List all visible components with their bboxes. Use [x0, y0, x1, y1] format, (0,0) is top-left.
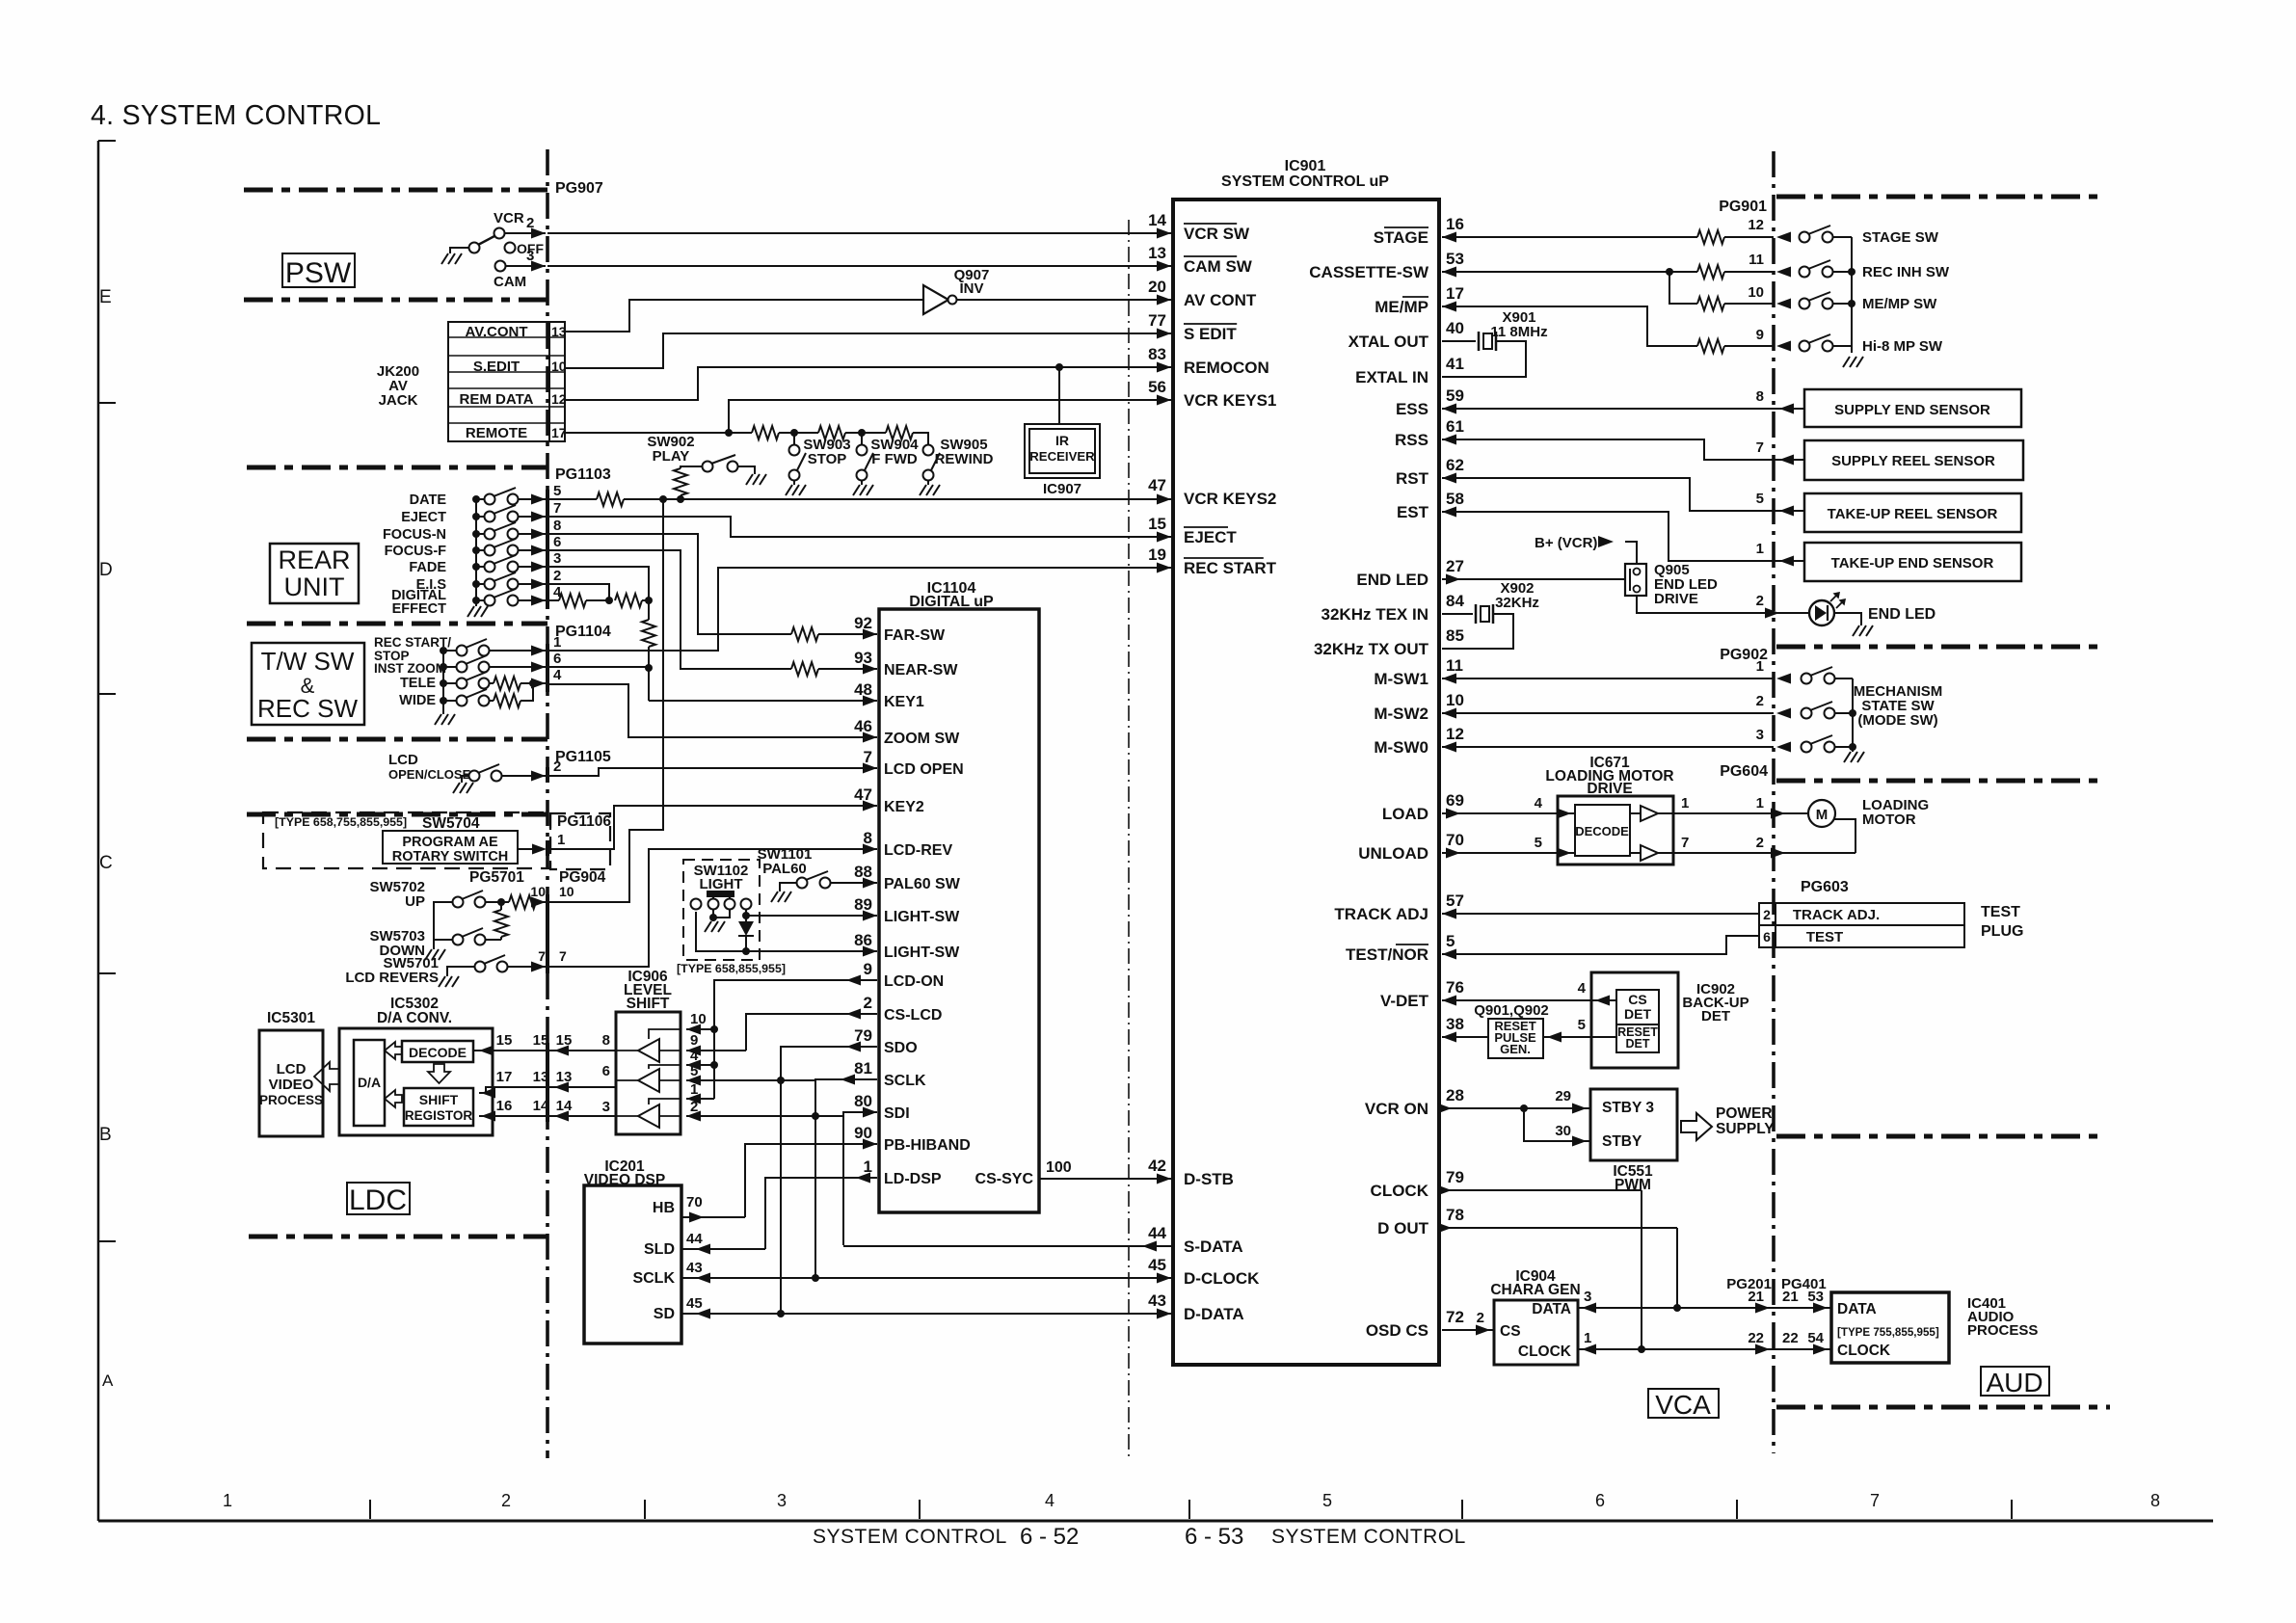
- wire UNLOAD pin70 to IC671 pin5: [1442, 852, 1575, 854]
- wire RSS to SUPPLY REEL SENSOR: [1442, 439, 1804, 460]
- svg-text:14: 14: [556, 1098, 573, 1114]
- power switch common wire to ground: [450, 248, 468, 253]
- svg-text:12: 12: [551, 391, 567, 407]
- RESET PULSE GEN box: [1488, 1019, 1543, 1058]
- section divider LDC bottom left: [249, 1235, 547, 1239]
- wire PG904-7 route to IC1104 LCD-REV: [547, 849, 877, 967]
- svg-text:LIGHT-SW: LIGHT-SW: [884, 909, 960, 925]
- wire CAM contact to PG907 pin 3: [506, 265, 546, 267]
- block label VCA box: [1648, 1389, 1719, 1418]
- svg-text:70: 70: [1446, 831, 1464, 849]
- svg-text:79: 79: [854, 1026, 872, 1045]
- svg-text:42: 42: [1148, 1157, 1166, 1175]
- wire IC671 out1 to loading motor: [1658, 812, 1808, 814]
- RESET DET sub box: [1616, 1024, 1659, 1052]
- svg-text:ESS: ESS: [1396, 400, 1428, 418]
- wire SDI from S-DATA riser: [843, 1112, 877, 1245]
- wire D OUT pin78 riser to DATA line: [1442, 1227, 1677, 1229]
- svg-text:8: 8: [864, 829, 872, 847]
- wire PG907-2 to IC901 pin14 VCR SW: [547, 232, 1171, 234]
- svg-text:IC901: IC901: [1285, 158, 1326, 174]
- svg-text:TEST: TEST: [1806, 929, 1843, 945]
- svg-text:10: 10: [1446, 691, 1464, 709]
- svg-text:TAKE-UP END SENSOR: TAKE-UP END SENSOR: [1831, 555, 1994, 572]
- right section divider PG902 bottom: [1776, 645, 2104, 650]
- svg-text:D OUT: D OUT: [1377, 1219, 1429, 1237]
- wire FOCUS-N/PG1103-8 to IC1104 FAR-SW: [547, 534, 791, 634]
- TAKE-UP REEL SENSOR box: [1804, 493, 2021, 532]
- buffer triangle in IC906 y=1090: [638, 1039, 659, 1062]
- svg-text:17: 17: [551, 425, 567, 440]
- svg-text:VCR KEYS2: VCR KEYS2: [1184, 490, 1276, 508]
- wire RST to TAKE-UP REEL SENSOR: [1442, 478, 1804, 511]
- svg-text:DATE: DATE: [410, 492, 447, 508]
- svg-text:VIDEO DSP: VIDEO DSP: [584, 1172, 665, 1188]
- ground rear unit common: [467, 606, 488, 617]
- svg-text:11: 11: [1446, 656, 1463, 675]
- svg-text:61: 61: [1446, 417, 1464, 436]
- svg-text:TELE: TELE: [400, 676, 436, 691]
- svg-text:CLOCK: CLOCK: [1837, 1343, 1891, 1359]
- wire IC671 out7 to loading motor return: [1658, 852, 1855, 854]
- svg-text:3: 3: [553, 550, 561, 567]
- power switch OFF contact: [505, 243, 516, 253]
- wire DATE/PG1103-5 to IC901 pin47 VCR KEYS2 with resistor: [547, 498, 597, 500]
- power switch CAM contact: [495, 261, 506, 272]
- svg-text:S-DATA: S-DATA: [1184, 1237, 1243, 1256]
- op-amp IC201 VIDEO DSP box: [584, 1185, 681, 1344]
- svg-text:ME/MP SW: ME/MP SW: [1862, 296, 1937, 312]
- svg-text:32KHz TX OUT: 32KHz TX OUT: [1314, 640, 1429, 658]
- svg-text:F FWD: F FWD: [871, 451, 918, 467]
- svg-text:SUPPLY END SENSOR: SUPPLY END SENSOR: [1834, 402, 1990, 418]
- svg-text:E: E: [99, 287, 112, 307]
- bottom axis tick marks: [369, 1500, 371, 1519]
- svg-text:DET: DET: [1624, 1006, 1651, 1022]
- wire riser KEY1 to IC1104 pin48: [649, 700, 877, 702]
- junction IR receiver on REMOCON line: [1055, 363, 1063, 371]
- resistor SW902 pull-down: [674, 468, 687, 495]
- wire VCR ON pin28 to STBY3/STBY: [1442, 1107, 1590, 1109]
- svg-text:SDI: SDI: [884, 1105, 910, 1122]
- wire STAGE SW to IC901 pin16 STAGE: [1442, 236, 1697, 238]
- svg-text:3: 3: [526, 248, 534, 264]
- svg-text:NEAR-SW: NEAR-SW: [884, 662, 958, 678]
- wire PG907-3 to IC901 pin13 CAM SW: [547, 265, 1171, 267]
- svg-text:D: D: [99, 560, 113, 580]
- svg-text:79: 79: [1446, 1168, 1464, 1186]
- svg-text:EJECT: EJECT: [1184, 528, 1237, 546]
- svg-text:15: 15: [1148, 515, 1166, 533]
- D/A sub box: [354, 1040, 385, 1126]
- wire FADE/PG1103-3 down center riser: [547, 567, 649, 600]
- svg-text:TAKE-UP REEL SENSOR: TAKE-UP REEL SENSOR: [1828, 506, 1998, 522]
- svg-text:62: 62: [1446, 456, 1464, 474]
- svg-text:DRIVE: DRIVE: [1654, 591, 1698, 607]
- switch common rail to ground: [1851, 237, 1853, 353]
- svg-text:17: 17: [1446, 284, 1464, 303]
- REAR UNIT block label box: [270, 544, 359, 603]
- wire PG1105-2 to IC1104 pin7 LCD OPEN: [547, 768, 877, 776]
- wire AV.CONT to inverter Q907 and IC901 pin20 AV CONT: [565, 300, 923, 332]
- svg-text:REWIND: REWIND: [935, 451, 994, 467]
- svg-text:CASSETTE-SW: CASSETTE-SW: [1309, 263, 1429, 281]
- svg-text:KEY2: KEY2: [884, 799, 924, 815]
- svg-text:86: 86: [854, 931, 872, 949]
- svg-text:92: 92: [854, 614, 872, 632]
- svg-text:13: 13: [556, 1069, 573, 1085]
- switch T/W row y=675: [440, 647, 447, 654]
- svg-text:47: 47: [854, 785, 872, 804]
- wire V-DET pin76 to CS DET: [1442, 999, 1616, 1001]
- svg-text:B: B: [99, 1125, 112, 1145]
- svg-text:78: 78: [1446, 1206, 1464, 1224]
- junction SW904: [858, 429, 866, 437]
- section divider REAR UNIT top: [247, 466, 547, 470]
- svg-text:6: 6: [1763, 929, 1771, 945]
- wire LCD-ON to IC906 enables: [714, 980, 877, 1099]
- wire M-SW1 to mode switch 1: [1442, 678, 1774, 679]
- svg-text:VIDEO: VIDEO: [269, 1077, 314, 1093]
- svg-text:48: 48: [854, 680, 872, 699]
- wire CS-LCD to IC906 pin9: [746, 1014, 877, 1051]
- svg-text:D/A: D/A: [358, 1075, 381, 1090]
- svg-text:9: 9: [1756, 327, 1764, 343]
- svg-text:CS: CS: [1500, 1323, 1521, 1340]
- svg-text:DIGITAL uP: DIGITAL uP: [909, 594, 994, 610]
- switch SW903 STOP: [793, 433, 795, 445]
- wire light bottom rail to IC1104 pin86 LIGHT-SW: [696, 912, 877, 951]
- svg-text:FAR-SW: FAR-SW: [884, 627, 946, 644]
- svg-text:PG907: PG907: [555, 180, 603, 197]
- svg-text:SCLK: SCLK: [884, 1073, 926, 1089]
- svg-text:CLOCK: CLOCK: [1371, 1182, 1429, 1200]
- wire INST ZOOM switch to bus: [490, 666, 546, 668]
- svg-text:17: 17: [496, 1069, 513, 1085]
- ground T/W common: [435, 714, 455, 725]
- wire INST ZOOM to KEY1 riser: [547, 666, 649, 668]
- svg-text:PG1105: PG1105: [555, 749, 611, 765]
- wire ME/MP SW joins CASSETTE net: [1669, 272, 1697, 304]
- svg-text:HB: HB: [653, 1200, 675, 1216]
- wire EST to TAKE-UP END SENSOR: [1442, 512, 1804, 561]
- svg-text:PAL60: PAL60: [762, 861, 807, 877]
- svg-text:VCR: VCR: [494, 210, 524, 226]
- wire EJECT/PG1103-7 to IC901 pin15 EJECT: [547, 517, 1171, 537]
- buffer triangle in IC906 y=1121: [638, 1069, 659, 1092]
- DECODE sub box in IC671: [1575, 805, 1630, 856]
- svg-text:2: 2: [553, 758, 561, 775]
- dashed option box TYPE 658,755,855,955 around SW5704: [263, 812, 550, 868]
- svg-text:VCA: VCA: [1655, 1390, 1711, 1420]
- svg-text:EJECT: EJECT: [401, 510, 446, 525]
- right section divider PG604 area: [1776, 779, 2104, 784]
- svg-text:1: 1: [557, 832, 565, 848]
- wire SLD to LD-DSP: [681, 1248, 765, 1250]
- svg-text:M-SW2: M-SW2: [1374, 705, 1428, 723]
- svg-text:72: 72: [1446, 1308, 1464, 1326]
- svg-text:3: 3: [602, 1099, 610, 1115]
- block arrow D/A to SHIFT REGISTOR: [385, 1090, 402, 1107]
- svg-text:7: 7: [864, 748, 872, 766]
- svg-text:STAGE: STAGE: [1374, 228, 1428, 247]
- svg-text:DATA: DATA: [1532, 1301, 1571, 1317]
- wire SW902 right contact to ground: [738, 466, 755, 474]
- svg-text:PG901: PG901: [1719, 199, 1767, 215]
- svg-text:4: 4: [1045, 1491, 1055, 1510]
- lamp terminals circles: [691, 899, 702, 910]
- wire Q905 to END LED diode: [1637, 596, 1774, 613]
- wire RESET DET to RESET PULSE GEN to pin38: [1543, 1036, 1616, 1038]
- svg-text:WIDE: WIDE: [399, 693, 436, 708]
- svg-text:C: C: [99, 853, 113, 873]
- junction REMOTE line to key resistor ladder: [725, 429, 733, 437]
- svg-text:TRACK ADJ: TRACK ADJ: [1334, 905, 1428, 923]
- wire E.I.S/PG1103-2 to divider: [547, 584, 609, 600]
- svg-text:A: A: [102, 1371, 114, 1390]
- svg-text:9: 9: [864, 960, 872, 978]
- switch REC INH SW: [1800, 267, 1810, 278]
- svg-text:STBY: STBY: [1602, 1133, 1642, 1150]
- svg-text:XTAL OUT: XTAL OUT: [1348, 333, 1429, 351]
- dashed option box around PG1106: [550, 813, 610, 869]
- svg-text:2: 2: [1756, 835, 1764, 851]
- svg-text:RSS: RSS: [1395, 431, 1428, 449]
- wire VCR contact to PG907 pin 2: [505, 232, 546, 234]
- svg-text:PSW: PSW: [285, 257, 352, 289]
- svg-text:[TYPE 755,855,955]: [TYPE 755,855,955]: [1837, 1326, 1939, 1339]
- svg-text:84: 84: [1446, 592, 1464, 610]
- bottom axis line: [98, 1520, 2213, 1523]
- block arrow DECODE down to SHIFT REGISTOR: [428, 1064, 450, 1083]
- connector JK200 AV JACK box: [448, 322, 565, 441]
- svg-text:4. SYSTEM CONTROL: 4. SYSTEM CONTROL: [91, 100, 381, 131]
- svg-text:19: 19: [1148, 545, 1166, 564]
- wire TEST/NOR pin5: [1442, 936, 1759, 954]
- svg-text:REC SW: REC SW: [257, 694, 358, 723]
- power switch blade: [478, 236, 494, 245]
- resistor FAR-SW series: [791, 627, 818, 641]
- svg-text:AV CONT: AV CONT: [1184, 291, 1257, 309]
- svg-text:GEN.: GEN.: [1500, 1042, 1531, 1056]
- svg-text:LCD REVERS: LCD REVERS: [345, 970, 439, 986]
- block arrow D/A to DECODE: [385, 1042, 402, 1059]
- svg-text:2: 2: [1756, 593, 1764, 609]
- wire REC START jog from PG1104-1 to IC901 pin19 REC START: [547, 568, 1171, 651]
- svg-text:14: 14: [1148, 211, 1166, 229]
- svg-text:2: 2: [1756, 693, 1764, 709]
- svg-text:6 - 52: 6 - 52: [1020, 1524, 1079, 1550]
- svg-text:SW5704: SW5704: [422, 815, 480, 832]
- svg-text:5: 5: [1446, 932, 1455, 950]
- svg-text:77: 77: [1148, 311, 1166, 330]
- wire SW5703 right contact joins divider: [486, 939, 501, 941]
- transistor Q905 END LED DRIVE: [1625, 564, 1646, 596]
- wire to SW905: [913, 433, 928, 445]
- svg-text:PG5701: PG5701: [469, 869, 524, 886]
- svg-text:STBY 3: STBY 3: [1602, 1100, 1654, 1116]
- right connector bus PG901/PG902/PG604/PG603/PG201-PG401 (dashed): [1772, 151, 1775, 1453]
- svg-text:[TYPE 658,755,855,955]: [TYPE 658,755,855,955]: [275, 815, 407, 829]
- svg-text:46: 46: [854, 717, 872, 735]
- op-amp IC5301 LCD VIDEO PROCESS box: [259, 1030, 323, 1136]
- svg-text:PG1104: PG1104: [555, 624, 611, 640]
- crystal X902 32KHz: [1442, 613, 1473, 615]
- wire PG1106-1 to IC1104 KEY2 riser: [547, 806, 877, 849]
- svg-text:MOTOR: MOTOR: [1862, 811, 1916, 828]
- svg-text:54: 54: [1807, 1330, 1824, 1346]
- svg-text:B+ (VCR): B+ (VCR): [1535, 535, 1597, 551]
- svg-text:85: 85: [1446, 626, 1464, 645]
- svg-text:16: 16: [1446, 215, 1464, 233]
- svg-text:STOP: STOP: [808, 451, 847, 467]
- svg-text:REAR: REAR: [278, 545, 350, 574]
- svg-text:PG604: PG604: [1720, 763, 1768, 780]
- page frame: left border: [97, 141, 100, 1521]
- switch SW1101 PAL60: [797, 878, 808, 889]
- CS DET sub box: [1616, 990, 1659, 1024]
- svg-text:VCR ON: VCR ON: [1365, 1100, 1428, 1118]
- svg-text:M: M: [1816, 807, 1829, 823]
- svg-text:57: 57: [1446, 891, 1464, 910]
- op-amp IC401 AUDIO PROCESS box: [1831, 1292, 1949, 1363]
- svg-text:8: 8: [602, 1032, 610, 1049]
- svg-text:93: 93: [854, 649, 872, 667]
- svg-text:89: 89: [854, 895, 872, 914]
- svg-text:15: 15: [496, 1032, 513, 1049]
- svg-text:45: 45: [686, 1295, 703, 1312]
- svg-text:LD-DSP: LD-DSP: [884, 1171, 942, 1187]
- SHIFT REGISTOR sub box: [404, 1088, 473, 1126]
- svg-text:13: 13: [533, 1069, 549, 1085]
- svg-text:AUD: AUD: [1986, 1368, 2042, 1397]
- svg-text:7: 7: [1870, 1491, 1880, 1510]
- svg-text:LCD OPEN: LCD OPEN: [884, 761, 964, 778]
- svg-text:8: 8: [553, 518, 561, 534]
- svg-text:END LED: END LED: [1868, 606, 1936, 623]
- svg-text:ME/MP: ME/MP: [1375, 298, 1428, 316]
- wire SCLK down to clock net: [815, 1079, 877, 1278]
- svg-text:12: 12: [1446, 725, 1464, 743]
- dashed box SW1102 LIGHT: [683, 860, 760, 960]
- wire key ladder from REMOTE junction: [729, 432, 752, 434]
- svg-text:45: 45: [1148, 1256, 1166, 1274]
- svg-text:10: 10: [551, 359, 567, 374]
- svg-text:DET: DET: [1701, 1008, 1730, 1024]
- left bus solid segments at connectors: [546, 490, 549, 609]
- svg-text:1: 1: [1756, 795, 1764, 811]
- lamp SW1102 filament bar: [707, 891, 734, 897]
- switch SW5701 LCD REVERS: [475, 962, 486, 972]
- svg-text:SLD: SLD: [644, 1241, 675, 1258]
- svg-text:44: 44: [686, 1231, 703, 1247]
- left connector bus PG907/PG1103/PG1104/PG1105/PG1106/PG904 (dashed): [546, 149, 549, 1458]
- svg-text:FOCUS-N: FOCUS-N: [383, 527, 446, 543]
- svg-text:44: 44: [1148, 1224, 1166, 1242]
- svg-text:3: 3: [777, 1491, 787, 1510]
- wire END LED to ground: [1834, 613, 1861, 625]
- svg-text:PG401: PG401: [1781, 1276, 1827, 1292]
- wire REMOTE pin17 to IC901 pin56 VCR KEYS1: [565, 400, 1171, 433]
- motor M circle LOADING MOTOR: [1808, 800, 1835, 827]
- resistor riser on FADE/KEY line vertical: [648, 600, 650, 620]
- svg-text:SYSTEM CONTROL uP: SYSTEM CONTROL uP: [1221, 173, 1389, 190]
- buffer triangle in IC906 y=1158: [638, 1104, 659, 1128]
- svg-text:DET: DET: [1626, 1037, 1650, 1051]
- svg-text:CS-SYC: CS-SYC: [975, 1171, 1034, 1187]
- svg-text:S EDIT: S EDIT: [1184, 325, 1237, 343]
- svg-text:D-DATA: D-DATA: [1184, 1305, 1244, 1323]
- svg-text:2: 2: [864, 994, 872, 1012]
- svg-text:DECODE: DECODE: [1575, 824, 1629, 838]
- svg-text:EXTAL IN: EXTAL IN: [1355, 368, 1428, 386]
- svg-text:SHIFT: SHIFT: [627, 996, 670, 1012]
- svg-text:7: 7: [538, 948, 546, 964]
- svg-text:7: 7: [1681, 835, 1689, 851]
- wire IC901 pin17 ME/MP to Hi-8 MP SW: [1442, 306, 1697, 346]
- ground psw: [441, 253, 462, 264]
- svg-text:41: 41: [1446, 355, 1464, 373]
- svg-text:PB-HIBAND: PB-HIBAND: [884, 1137, 971, 1154]
- T/W switch common rail: [442, 651, 444, 714]
- svg-text:PAL60 SW: PAL60 SW: [884, 876, 961, 892]
- rear unit switch common rail: [475, 499, 477, 602]
- svg-text:STAGE SW: STAGE SW: [1862, 229, 1939, 246]
- DECODE sub box: [402, 1041, 473, 1062]
- wire SD joins data net: [681, 1313, 781, 1315]
- wire OSD CS pin72 to IC904 CS: [1442, 1329, 1494, 1331]
- resistor NEAR-SW series: [791, 662, 818, 676]
- svg-text:EFFECT: EFFECT: [392, 601, 447, 617]
- svg-text:32KHz TEX IN: 32KHz TEX IN: [1322, 605, 1428, 624]
- wire PG904-10 route up to VCR KEYS2 net: [547, 499, 663, 902]
- op-amp IC904 CHARA GEN box: [1494, 1300, 1578, 1365]
- svg-text:12: 12: [1748, 217, 1764, 233]
- svg-text:SYSTEM CONTROL: SYSTEM CONTROL: [813, 1526, 1007, 1548]
- svg-text:2: 2: [526, 215, 534, 231]
- svg-text:10: 10: [1748, 284, 1764, 301]
- svg-text:PROCESS: PROCESS: [1967, 1322, 2038, 1339]
- wire FOCUS-F/PG1103-6 to IC1104 NEAR-SW: [547, 550, 791, 669]
- svg-text:ZOOM SW: ZOOM SW: [884, 731, 960, 747]
- svg-text:6: 6: [602, 1063, 610, 1079]
- section divider PSW bottom: [244, 298, 547, 303]
- svg-text:LOAD: LOAD: [1382, 805, 1428, 823]
- svg-text:6 - 53: 6 - 53: [1185, 1524, 1243, 1550]
- power switch PSW common contact: [469, 243, 480, 253]
- svg-text:13: 13: [551, 324, 567, 339]
- svg-text:TEST: TEST: [1981, 904, 2020, 920]
- block label AUD box: [1981, 1367, 2049, 1396]
- LED END LED symbol: [1809, 600, 1834, 625]
- wire ESS to SUPPLY END SENSOR: [1442, 408, 1804, 410]
- svg-text:VCR SW: VCR SW: [1184, 225, 1250, 243]
- crystal X901 11.8MHz: [1442, 340, 1476, 342]
- svg-text:CHARA GEN: CHARA GEN: [1490, 1282, 1580, 1298]
- wire LOAD pin69 to IC671 pin4: [1442, 812, 1575, 814]
- TEST PLUG connector box TEST: [1759, 925, 1775, 947]
- resistor key ladder R1: [752, 426, 779, 439]
- TEST PLUG connector box TRACK ADJ: [1759, 903, 1775, 925]
- wire HB to PB-HIBAND: [681, 1216, 745, 1218]
- svg-text:1: 1: [864, 1157, 872, 1176]
- wire lamp to ground: [712, 909, 714, 918]
- block label PSW box: [282, 253, 355, 287]
- power switch VCR contact: [494, 228, 505, 239]
- svg-text:Q901,Q902: Q901,Q902: [1474, 1002, 1549, 1019]
- wire SW5702 to bus with resistor: [486, 901, 501, 903]
- op-amp IC5302 D/A CONV box: [339, 1028, 493, 1135]
